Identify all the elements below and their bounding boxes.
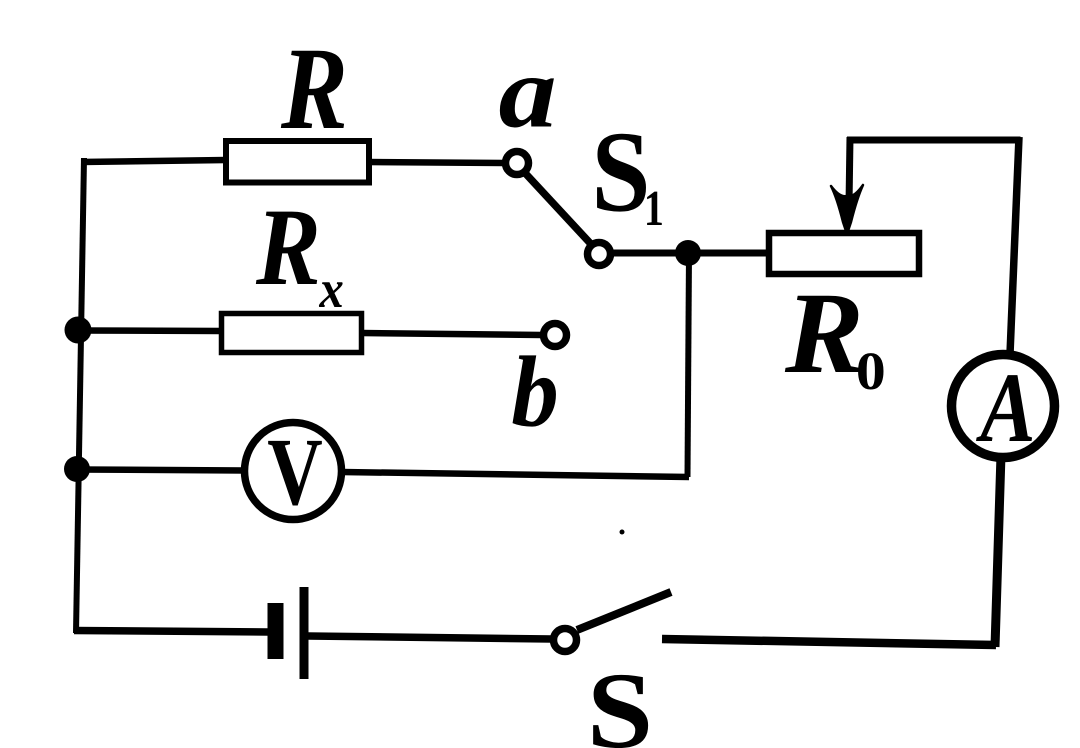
wire R to contact a bbox=[368, 162, 504, 163]
wire node to Rx bbox=[77, 327, 222, 334]
wire Rx to contact b bbox=[362, 333, 542, 335]
switch S contact bbox=[554, 629, 577, 652]
label S bbox=[593, 675, 648, 748]
battery positive plate (long) bbox=[300, 587, 309, 679]
label R bbox=[281, 51, 344, 128]
speck artifact bbox=[620, 530, 625, 535]
wire R0 wiper top bbox=[847, 137, 1021, 144]
switch S1 pivot contact bbox=[588, 243, 611, 266]
wire S1 pivot to junction bbox=[612, 250, 768, 257]
rheostat R0 arrow stem bbox=[849, 137, 850, 205]
junction node voltmeter branch bbox=[64, 456, 90, 482]
label S1 bbox=[597, 134, 662, 225]
battery negative plate (short) bbox=[268, 603, 284, 659]
wire node to voltmeter bbox=[77, 470, 245, 471]
wire voltmeter to junction riser bbox=[342, 472, 689, 477]
switch S1 blade bbox=[526, 174, 590, 243]
junction node Rx branch bbox=[65, 317, 92, 344]
wire right vertical to ammeter bbox=[1010, 137, 1019, 354]
label R0 bbox=[785, 296, 884, 390]
contact a (open terminal) bbox=[506, 152, 529, 175]
label A bbox=[976, 375, 1032, 441]
resistor R bbox=[226, 141, 369, 183]
ammeter A bbox=[952, 355, 1055, 458]
wire junction down to voltmeter branch bbox=[688, 253, 690, 477]
switch S blade bbox=[577, 592, 671, 630]
resistor Rx bbox=[222, 314, 362, 353]
wire battery to switch S bbox=[308, 636, 552, 639]
contact b (open terminal) bbox=[544, 324, 567, 347]
wire bottom left horizontal bbox=[74, 631, 268, 633]
wire bottom right horizontal bbox=[662, 639, 996, 645]
junction node after S1 bbox=[675, 240, 701, 266]
label Rx bbox=[256, 212, 343, 307]
wire top-left horizontal (node to R) bbox=[81, 160, 226, 162]
wire left vertical bus bbox=[76, 158, 84, 633]
label a bbox=[500, 78, 554, 128]
label V bbox=[268, 441, 322, 506]
label b bbox=[513, 355, 556, 426]
voltmeter V bbox=[245, 423, 342, 520]
rheostat R0 body bbox=[769, 233, 919, 274]
wire ammeter down bbox=[995, 455, 1001, 647]
rheostat R0 arrowhead bbox=[831, 185, 863, 234]
